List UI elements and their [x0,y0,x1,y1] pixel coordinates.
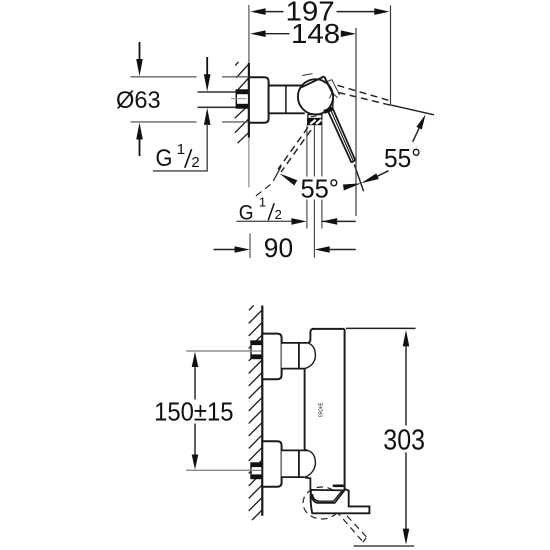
bottom escutcheon [262,441,281,486]
dashed swing ellipse [303,487,341,519]
bottom union tube [282,451,299,477]
dim G1/2 bottom arrow + leader [204,108,211,125]
dim 303 [403,330,410,346]
body top edge [312,328,345,330]
tick above handle [333,484,344,487]
dark wedge at lever root [324,109,333,113]
body right edge [344,329,346,490]
wall hatching bottom view [249,306,263,521]
dim 148 [250,30,265,37]
dim 150 ext line overlay bottom [186,469,261,471]
top union tube [282,344,299,369]
dim Ø63 extension line bottom [131,121,197,123]
svg-text:303: 303 [383,425,425,457]
svg-text:2: 2 [275,207,282,222]
dim 303 top ext [346,327,416,329]
dim 150+-15 [192,352,199,367]
G1/2 lower leader underline + arrow [236,220,293,222]
dim Ø63 extension line top [131,76,197,78]
dim 90 [214,249,237,251]
dashed lever swung [336,508,367,543]
bottom union nut arc [304,450,315,477]
escutcheon top view [249,77,269,122]
ball [298,79,333,114]
wall ext for 90 [249,234,251,259]
faucet body top view [269,86,299,114]
lever extension ref line [354,165,363,192]
dim 150 ext lines [186,350,261,352]
top union nut arc [305,343,316,369]
svg-text:Ø63: Ø63 [116,87,161,114]
lever arm [328,109,355,163]
ext line x356 [355,28,357,216]
outlet thread collar [307,119,322,126]
svg-text:GROHE: GROHE [318,403,324,418]
handle boat end view [311,490,345,503]
outlet extension lines [307,125,322,257]
angle leader left 55 left arrow [280,174,298,186]
angle ref line lower-left [273,166,281,181]
bottom tube end line [298,450,300,477]
G1/2 lower right arrow [322,220,356,222]
angle ref line upper [391,105,435,115]
outlet neck [308,115,322,119]
body left edge [305,369,308,451]
wall line lower thin [248,138,250,188]
label G1/2 lower [239,195,282,225]
dashed lever up position [338,85,391,105]
top escutcheon [262,334,281,380]
dashed lever down position [278,127,311,172]
wall hatching top view [235,62,250,143]
nipple top view [236,90,249,108]
boat inner line [312,491,342,501]
body step under nut [304,477,310,490]
angle leader right 55 upper [413,128,419,142]
dashed ref continuation [253,185,271,199]
svg-text:55°: 55° [301,173,340,203]
label G1/2 upper [156,141,200,172]
svg-text:148: 148 [291,18,340,49]
bottom step bar [311,490,370,513]
dim 303 bottom ext [354,545,415,547]
handle hub [302,76,334,108]
svg-text:2: 2 [191,154,199,171]
pipe centerline [231,98,247,100]
svg-text:1: 1 [259,195,266,210]
wall extension line upper [248,5,250,63]
svg-text:G: G [156,145,173,172]
svg-text:150±15: 150±15 [154,396,233,426]
dim Ø63 arrow bottom [139,138,141,156]
dim Ø63 arrow top [139,42,141,61]
body contour line [285,86,287,114]
top inlet nipple [251,341,262,359]
bottom inlet nipple [251,463,262,479]
angle leader left 55 right arrow [343,183,362,190]
dim G1/2 top arrow [206,57,208,76]
wall line top view [248,63,250,138]
svg-text:55°: 55° [384,143,421,173]
ext line x389 [390,6,392,106]
top tube end line [298,343,300,369]
angle leader right 55 lower [378,171,389,177]
ghost hub thin lines [302,74,339,99]
wall line bottom view [261,306,263,516]
faucet body bottom view fill [305,329,345,490]
body cap left edge [308,329,313,343]
dim 197 [250,8,265,15]
svg-text:90: 90 [264,233,293,263]
supply pipe lines [198,91,237,93]
dim 150 ext line overlay top [186,350,261,352]
svg-text:1: 1 [177,141,185,158]
